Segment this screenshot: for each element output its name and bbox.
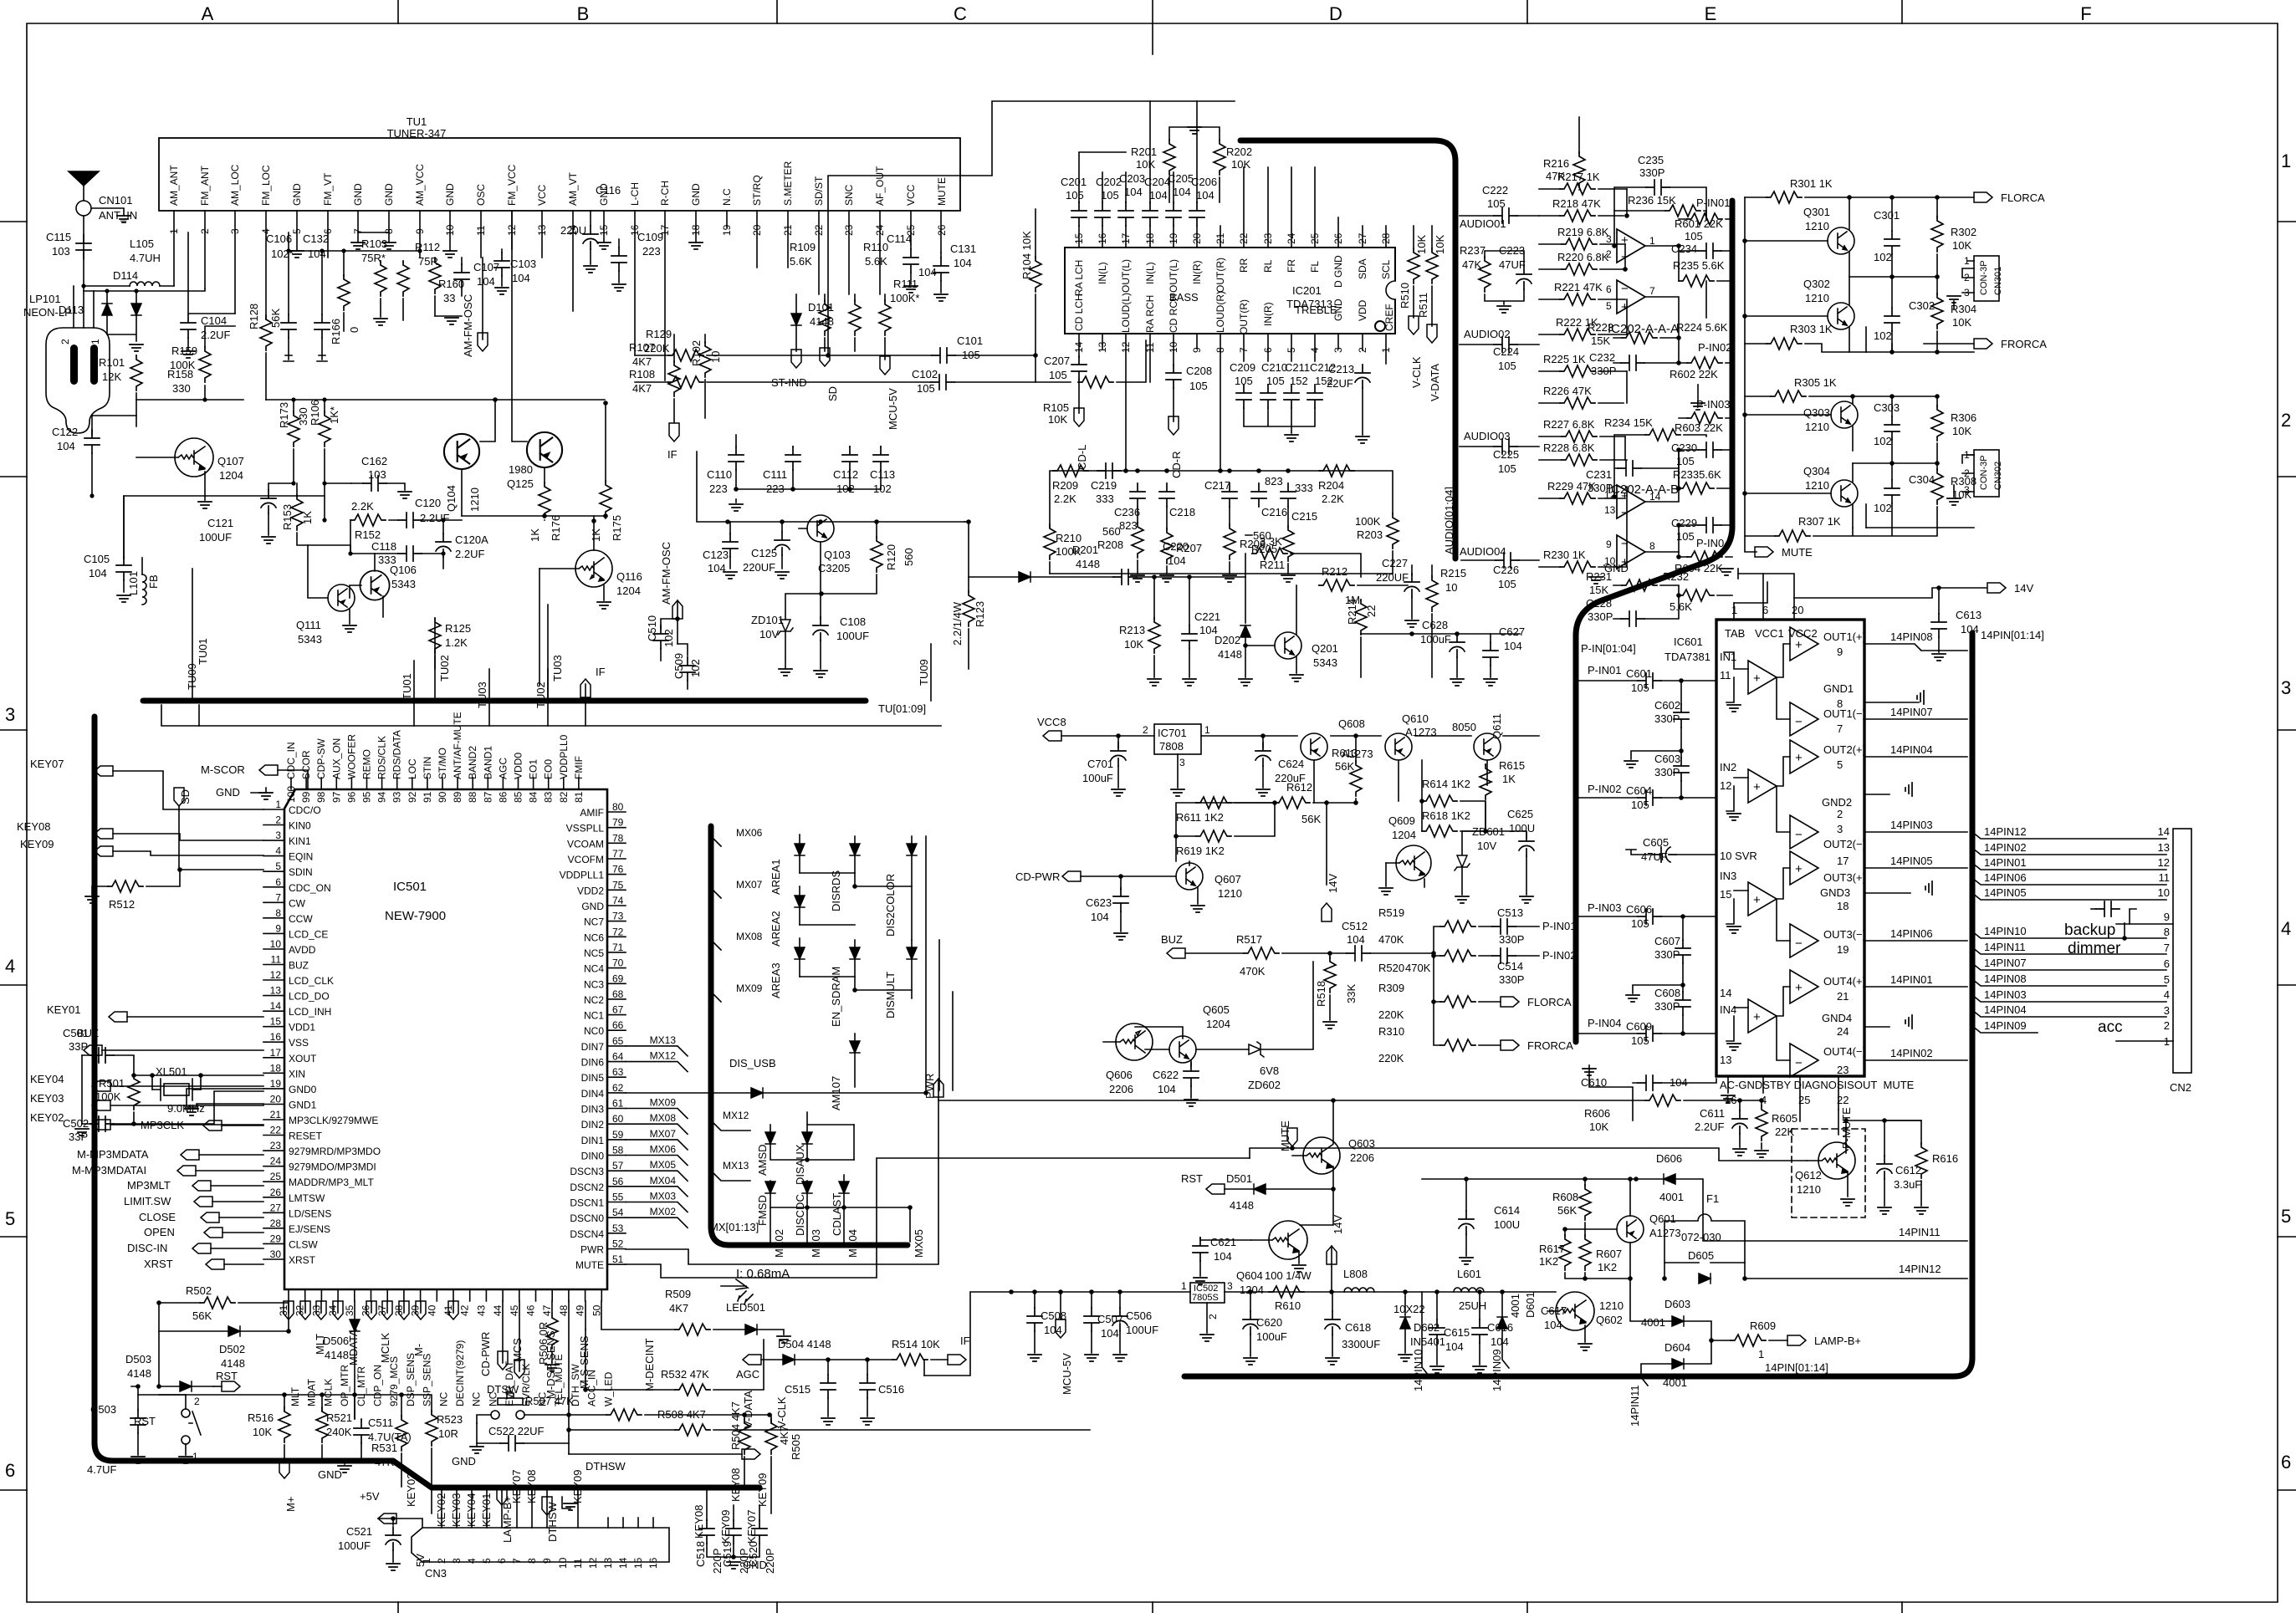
wire top rail — [828, 101, 1235, 355]
svg-text:R505: R505 — [790, 1434, 802, 1460]
svg-text:RA RCH: RA RCH — [1144, 295, 1156, 333]
svg-text:R520: R520 — [1378, 962, 1404, 974]
svg-text:10K: 10K — [1136, 158, 1155, 171]
svg-text:P-IN02: P-IN02 — [1542, 949, 1576, 962]
svg-text:9: 9 — [275, 922, 281, 934]
svg-text:10K: 10K — [1952, 239, 1971, 252]
svg-text:1210: 1210 — [1805, 479, 1829, 492]
capacitor C131 — [933, 258, 949, 281]
transistor Q603 digital — [0, 0, 1, 1]
pin rows — [1972, 832, 2173, 1033]
resistor R306 — [1931, 406, 1943, 441]
svg-text:FM_LOC: FM_LOC — [260, 165, 272, 206]
svg-text:D202: D202 — [1214, 634, 1240, 646]
svg-text:10K: 10K — [1589, 1120, 1608, 1133]
wire y690 — [969, 535, 1252, 577]
svg-text:LOUD(R): LOUD(R) — [1214, 291, 1226, 333]
svg-text:53: 53 — [612, 1223, 624, 1234]
resistor R153 — [291, 495, 303, 530]
svg-text:−: − — [1795, 715, 1803, 729]
capacitor C162 — [363, 476, 386, 491]
svg-text:20: 20 — [1191, 232, 1203, 244]
svg-text:GND1: GND1 — [289, 1100, 317, 1111]
svg-text:R610: R610 — [1275, 1299, 1301, 1312]
svg-text:R511: R511 — [1417, 293, 1429, 318]
svg-text:13: 13 — [1097, 341, 1108, 353]
svg-text:XOUT: XOUT — [289, 1053, 317, 1064]
svg-text:DIN3: DIN3 — [581, 1104, 605, 1115]
svg-text:Q608: Q608 — [1338, 717, 1365, 730]
svg-text:90: 90 — [437, 791, 448, 803]
svg-text:1204: 1204 — [219, 469, 243, 482]
svg-text:AMSD: AMSD — [756, 1144, 769, 1176]
wire MUTE pin51 — [626, 1158, 1250, 1278]
svg-text:SNC: SNC — [843, 184, 855, 206]
svg-text:LCD_INH: LCD_INH — [289, 1006, 331, 1018]
svg-text:Q111: Q111 — [296, 619, 321, 631]
svg-text:ST-IND: ST-IND — [771, 376, 807, 389]
svg-text:CD RCH: CD RCH — [1168, 294, 1179, 333]
svg-text:DISRDS: DISRDS — [830, 870, 842, 911]
svg-text:LMTSW: LMTSW — [289, 1192, 325, 1204]
capacitor C612 — [1877, 1156, 1892, 1179]
svg-text:OUT4(−): OUT4(−) — [1823, 1045, 1866, 1058]
svg-text:5343: 5343 — [391, 578, 416, 590]
svg-text:1: 1 — [421, 1558, 432, 1564]
svg-text:70: 70 — [612, 957, 624, 969]
capacitor C217 — [1222, 483, 1237, 507]
svg-text:C111: C111 — [763, 468, 787, 481]
svg-text:R230 1K: R230 1K — [1543, 549, 1586, 561]
svg-text:R504 4K7: R504 4K7 — [729, 1401, 742, 1450]
TU1 pin numbers — [168, 224, 948, 236]
svg-text:OUT(L): OUT(L) — [1168, 259, 1179, 293]
svg-text:C101: C101 — [957, 334, 983, 347]
switch cluster — [159, 1383, 802, 1513]
svg-text:VDD: VDD — [1357, 299, 1368, 321]
svg-text:R203: R203 — [1357, 528, 1383, 541]
svg-text:C3205: C3205 — [818, 562, 850, 574]
svg-text:2.2K: 2.2K — [1322, 493, 1344, 505]
wires to XOUT XIN — [134, 1075, 263, 1124]
resistors R504 R505 — [744, 1415, 771, 1423]
resistor R166 0 — [338, 275, 350, 310]
svg-text:GND: GND — [318, 1468, 342, 1481]
svg-text:8: 8 — [1649, 540, 1655, 552]
op-amp IC202-A 1st — [1617, 229, 1645, 263]
svg-text:69: 69 — [612, 972, 624, 984]
capacitor C120A — [436, 533, 451, 557]
svg-text:FR: FR — [1286, 259, 1297, 273]
svg-text:IN3: IN3 — [1720, 870, 1736, 882]
svg-text:TU02: TU02 — [438, 655, 451, 681]
svg-text:5: 5 — [481, 1558, 493, 1564]
svg-text:+: + — [1621, 233, 1629, 248]
svg-text:D GND: D GND — [1332, 255, 1344, 288]
svg-text:R110: R110 — [863, 241, 888, 253]
svg-text:47: 47 — [541, 1304, 553, 1316]
capacitor C622 — [1184, 1063, 1199, 1086]
svg-text:C218: C218 — [1169, 506, 1195, 518]
svg-text:14PIN04: 14PIN04 — [1890, 743, 1933, 756]
svg-text:R510: R510 — [1399, 283, 1411, 309]
svg-text:VDD0: VDD0 — [513, 753, 524, 779]
svg-text:OSC: OSC — [475, 184, 487, 206]
svg-text:R506 0R: R506 0R — [537, 1322, 550, 1365]
svg-text:OUT(R): OUT(R) — [1214, 258, 1226, 293]
wire pin7-8 tie — [358, 232, 389, 233]
svg-text:MX13: MX13 — [650, 1034, 677, 1046]
zener ZD602 — [1249, 1042, 1264, 1057]
transistor Q116 digital — [539, 550, 612, 587]
capacitor C618 — [1325, 1311, 1340, 1335]
svg-text:Q106: Q106 — [390, 564, 417, 576]
svg-text:3: 3 — [451, 1558, 463, 1564]
svg-text:LIMIT.SW: LIMIT.SW — [124, 1195, 171, 1207]
svg-text:R532 47K: R532 47K — [661, 1368, 709, 1381]
svg-text:RST: RST — [1181, 1172, 1203, 1185]
svg-text:33P: 33P — [69, 1040, 88, 1053]
svg-text:C131: C131 — [950, 242, 976, 255]
svg-text:104: 104 — [57, 440, 75, 452]
svg-text:102: 102 — [873, 482, 892, 495]
svg-text:1204: 1204 — [616, 584, 641, 597]
capacitor C104 — [188, 232, 235, 314]
svg-text:R128: R128 — [248, 304, 260, 329]
svg-text:20: 20 — [270, 1094, 282, 1105]
svg-text:4001: 4001 — [1641, 1316, 1665, 1329]
svg-text:13: 13 — [602, 1557, 614, 1569]
svg-text:CN302: CN302 — [1993, 462, 2003, 490]
capacitor C208 — [1166, 365, 1181, 388]
svg-text:R614 1K2: R614 1K2 — [1422, 778, 1470, 790]
svg-text:10 SVR: 10 SVR — [1720, 850, 1757, 862]
svg-text:DIS_USB: DIS_USB — [729, 1057, 776, 1069]
svg-text:18: 18 — [270, 1062, 282, 1074]
capacitor C508 — [1027, 1308, 1042, 1331]
svg-text:DISC-IN: DISC-IN — [127, 1242, 167, 1254]
svg-text:98: 98 — [315, 791, 327, 803]
svg-text:MX09: MX09 — [736, 983, 763, 994]
svg-text:104: 104 — [1101, 1327, 1119, 1340]
resistor R302 — [1931, 217, 1943, 252]
svg-text:18: 18 — [1837, 900, 1849, 912]
svg-text:84: 84 — [528, 791, 539, 803]
capacitor C615 — [1429, 1319, 1445, 1343]
svg-text:4K7: 4K7 — [669, 1302, 688, 1314]
svg-text:91: 91 — [422, 791, 433, 803]
svg-text:C602: C602 — [1654, 699, 1680, 712]
capacitor C219 — [1097, 463, 1121, 478]
svg-text:NC2: NC2 — [584, 994, 604, 1006]
svg-text:RDS/CLK: RDS/CLK — [376, 736, 388, 779]
svg-text:VCC: VCC — [905, 184, 917, 206]
svg-text:220UF: 220UF — [743, 561, 775, 574]
svg-text:GND: GND — [383, 183, 395, 206]
svg-text:10V: 10V — [759, 628, 779, 641]
svg-text:10K: 10K — [1048, 413, 1067, 426]
svg-text:10K: 10K — [1415, 235, 1428, 254]
svg-text:XIN: XIN — [289, 1068, 305, 1080]
svg-text:R159: R159 — [171, 345, 197, 357]
TU1 box — [159, 138, 960, 211]
svg-text:470K: 470K — [1240, 965, 1266, 977]
svg-text:MP3CLK: MP3CLK — [141, 1119, 184, 1131]
svg-text:C513: C513 — [1497, 906, 1523, 919]
svg-text:1K2: 1K2 — [1539, 1255, 1558, 1268]
svg-text:R204: R204 — [1318, 479, 1344, 492]
diode D602 — [1400, 1317, 1410, 1329]
svg-text:LCD_CLK: LCD_CLK — [289, 975, 334, 987]
svg-text:MCLK: MCLK — [379, 1333, 391, 1363]
svg-text:1210: 1210 — [1797, 1183, 1821, 1196]
svg-text:C227: C227 — [1382, 557, 1408, 569]
svg-text:CL_MTR: CL_MTR — [355, 1366, 367, 1406]
bottom power row — [736, 1268, 1556, 1425]
svg-text:C221: C221 — [1194, 610, 1220, 623]
svg-text:XRST: XRST — [144, 1258, 173, 1270]
svg-text:2: 2 — [275, 814, 281, 826]
svg-text:R103: R103 — [361, 237, 387, 250]
svg-text:7: 7 — [1837, 722, 1843, 735]
svg-text:1210: 1210 — [1218, 887, 1242, 900]
svg-text:E: E — [1705, 3, 1717, 24]
svg-text:102: 102 — [689, 659, 702, 677]
svg-text:C235: C235 — [1638, 154, 1664, 166]
svg-text:76: 76 — [612, 864, 624, 875]
transistor Q611 — [1474, 733, 1501, 760]
svg-text:GND: GND — [690, 183, 702, 206]
svg-text:104: 104 — [512, 272, 530, 284]
svg-text:104: 104 — [1173, 186, 1191, 198]
svg-text:R107: R107 — [629, 341, 655, 354]
svg-text:75: 75 — [612, 879, 624, 891]
IC601 TDA7381 power amp — [1576, 569, 2044, 1120]
svg-text:2.2K: 2.2K — [351, 500, 374, 513]
net MCU-5V — [1056, 1319, 1066, 1338]
net LAMP-B+ — [1787, 1335, 1806, 1345]
svg-text:IN(R): IN(R) — [1191, 260, 1203, 284]
svg-text:23: 23 — [270, 1140, 282, 1151]
svg-text:Q104: Q104 — [445, 485, 458, 512]
resistor R176 — [539, 482, 550, 518]
svg-text:L101: L101 — [127, 571, 140, 595]
svg-text:AUDIO04: AUDIO04 — [1460, 545, 1506, 558]
svg-text:C123: C123 — [703, 549, 729, 561]
svg-text:AUDIO03: AUDIO03 — [1464, 430, 1511, 442]
svg-text:2.2UF: 2.2UF — [1695, 1120, 1724, 1133]
svg-text:330P: 330P — [1588, 482, 1613, 494]
svg-text:KEY07: KEY07 — [510, 1470, 523, 1503]
svg-text:+: + — [1753, 780, 1761, 794]
svg-text:62: 62 — [612, 1082, 624, 1094]
svg-text:C606: C606 — [1626, 903, 1652, 916]
svg-text:3: 3 — [1964, 484, 1970, 496]
svg-text:R517: R517 — [1236, 933, 1262, 946]
svg-text:C516: C516 — [878, 1383, 904, 1396]
svg-text:R307 1K: R307 1K — [1798, 515, 1841, 528]
svg-text:14PIN11: 14PIN11 — [1629, 1385, 1641, 1427]
svg-text:R219 6.8K: R219 6.8K — [1557, 226, 1609, 238]
svg-text:VCC1: VCC1 — [1755, 627, 1784, 640]
svg-text:C232: C232 — [1589, 351, 1615, 364]
svg-text:+: + — [1753, 1010, 1761, 1024]
capacitor C122 — [91, 416, 93, 435]
svg-text:C236: C236 — [1114, 506, 1140, 518]
svg-text:R129: R129 — [646, 328, 672, 340]
resistor R206 — [1224, 524, 1235, 559]
svg-text:1210: 1210 — [468, 487, 481, 512]
svg-text:73: 73 — [612, 911, 624, 922]
svg-text:10: 10 — [1168, 341, 1179, 353]
svg-text:VCOAM: VCOAM — [567, 838, 604, 850]
svg-text:R225 1K: R225 1K — [1543, 353, 1586, 365]
svg-text:17: 17 — [270, 1047, 282, 1059]
connector CN101 ANT_IN — [76, 201, 91, 216]
svg-text:RESET: RESET — [289, 1131, 323, 1142]
svg-text:M+: M+ — [284, 1497, 297, 1512]
svg-text:W_LED: W_LED — [602, 1371, 614, 1406]
svg-text:C628: C628 — [1422, 619, 1448, 631]
svg-text:R609: R609 — [1750, 1319, 1776, 1332]
svg-text:R227 6.8K: R227 6.8K — [1543, 418, 1595, 431]
svg-text:2: 2 — [1606, 248, 1612, 260]
svg-text:Q303: Q303 — [1803, 406, 1830, 419]
wire rail y617 — [462, 515, 606, 517]
svg-text:96: 96 — [345, 791, 357, 803]
svg-text:51: 51 — [612, 1253, 624, 1265]
svg-text:105: 105 — [1631, 1034, 1649, 1047]
svg-text:DSCN0: DSCN0 — [570, 1212, 604, 1224]
svg-text:1K: 1K — [301, 511, 314, 524]
capacitor C207 — [1071, 356, 1087, 380]
svg-text:R615: R615 — [1499, 759, 1525, 772]
svg-text:SCOR: SCOR — [300, 750, 312, 779]
left tap labels — [1984, 825, 2027, 1032]
svg-text:6V8: 6V8 — [1260, 1064, 1279, 1077]
svg-text:P-IN04: P-IN04 — [1696, 537, 1730, 549]
svg-text:C120: C120 — [415, 497, 441, 509]
long wires under tuner to IC501 — [161, 701, 941, 726]
base wire to Q612 — [1250, 1148, 1807, 1161]
svg-text:VSSPLL: VSSPLL — [566, 823, 605, 835]
svg-text:−: − — [1795, 937, 1803, 951]
svg-text:4001: 4001 — [1509, 1294, 1521, 1318]
gnd CN301 — [1953, 301, 1955, 309]
svg-text:C206: C206 — [1191, 176, 1217, 188]
svg-text:NC: NC — [437, 1391, 449, 1406]
svg-text:65: 65 — [612, 1035, 624, 1047]
svg-text:9279MDO/MP3MDI: 9279MDO/MP3MDI — [289, 1161, 376, 1173]
svg-text:C617: C617 — [1541, 1304, 1567, 1317]
gnd CN302 — [1953, 485, 1955, 497]
svg-text:100UF: 100UF — [836, 630, 869, 642]
svg-text:6: 6 — [496, 1558, 508, 1564]
svg-text:R612: R612 — [1286, 781, 1312, 794]
svg-text:R502: R502 — [186, 1284, 212, 1297]
svg-text:99: 99 — [300, 791, 312, 803]
svg-text:Q610: Q610 — [1402, 712, 1429, 725]
svg-text:M-MP3MDATA: M-MP3MDATA — [77, 1148, 149, 1161]
capacitor C115 — [76, 235, 91, 258]
net MCU-5V — [880, 356, 890, 375]
svg-text:MCU-5V: MCU-5V — [1061, 1353, 1073, 1395]
capacitor C103 — [494, 253, 509, 276]
svg-text:C521: C521 — [346, 1525, 372, 1538]
svg-text:XRST: XRST — [289, 1254, 316, 1266]
wire antenna to CN101 — [83, 186, 84, 328]
svg-text:GND: GND — [291, 183, 303, 206]
svg-text:14PIN01: 14PIN01 — [1890, 973, 1933, 986]
svg-text:+: + — [1753, 671, 1761, 686]
svg-text:R220 6.8K: R220 6.8K — [1557, 251, 1609, 263]
svg-text:R605: R605 — [1772, 1112, 1797, 1125]
svg-text:EQIN: EQIN — [289, 851, 313, 863]
resistors R510 R511 — [1408, 248, 1419, 283]
svg-text:77: 77 — [612, 848, 624, 860]
svg-text:MDAT: MDAT — [306, 1378, 318, 1406]
svg-text:4148: 4148 — [1218, 648, 1242, 661]
svg-text:2: 2 — [2164, 1019, 2170, 1032]
svg-text:105: 105 — [1498, 360, 1516, 372]
resistor R208 — [1132, 523, 1143, 558]
svg-text:C501: C501 — [63, 1027, 89, 1039]
svg-text:33K: 33K — [1345, 984, 1358, 1003]
capacitor C213 — [1355, 365, 1370, 388]
svg-text:MX06: MX06 — [736, 827, 763, 839]
svg-text:C234: C234 — [1671, 242, 1697, 255]
svg-text:80: 80 — [612, 801, 624, 813]
svg-text:104: 104 — [954, 257, 972, 269]
svg-text:R523: R523 — [437, 1413, 463, 1426]
svg-text:dimmer: dimmer — [2068, 940, 2121, 957]
net IF tag — [669, 423, 679, 442]
svg-text:1: 1 — [1181, 1280, 1187, 1292]
transistor Q604 digital — [1251, 1221, 1307, 1259]
capacitor C121 — [261, 490, 276, 513]
capacitor C623 — [1113, 888, 1128, 911]
svg-text:823: 823 — [1265, 475, 1283, 487]
gnd stubs right — [1864, 702, 1919, 703]
svg-text:TREBLE: TREBLE — [1295, 304, 1337, 316]
svg-text:KEY04: KEY04 — [465, 1493, 478, 1527]
svg-text:C607: C607 — [1654, 935, 1680, 947]
svg-text:C116: C116 — [596, 184, 621, 197]
svg-text:C224: C224 — [1493, 345, 1519, 358]
tone filter network under IC201 — [1044, 463, 1399, 582]
svg-text:8050: 8050 — [1452, 721, 1476, 733]
svg-text:KIN0: KIN0 — [289, 820, 311, 832]
svg-text:R109: R109 — [790, 241, 816, 253]
svg-text:10K: 10K — [1952, 425, 1971, 437]
svg-text:Q602: Q602 — [1596, 1314, 1623, 1326]
svg-text:AREA2: AREA2 — [770, 911, 782, 947]
svg-text:1204: 1204 — [1392, 829, 1416, 841]
transistor Q103 — [807, 515, 834, 542]
net AUDIO taps — [1460, 184, 1519, 590]
svg-text:12K: 12K — [102, 370, 121, 383]
svg-text:1: 1 — [89, 339, 101, 345]
svg-text:14PIN06: 14PIN06 — [1890, 927, 1933, 940]
svg-text:19: 19 — [1837, 943, 1849, 956]
MX diode matrix — [626, 827, 953, 1258]
wire to CON-3P CN301 — [1849, 268, 1974, 352]
svg-text:3: 3 — [5, 704, 15, 725]
svg-text:OUT3(−): OUT3(−) — [1823, 928, 1866, 941]
resistor R616 — [1915, 1143, 1927, 1178]
svg-text:4001: 4001 — [1659, 1191, 1684, 1203]
svg-text:2: 2 — [1143, 724, 1148, 736]
